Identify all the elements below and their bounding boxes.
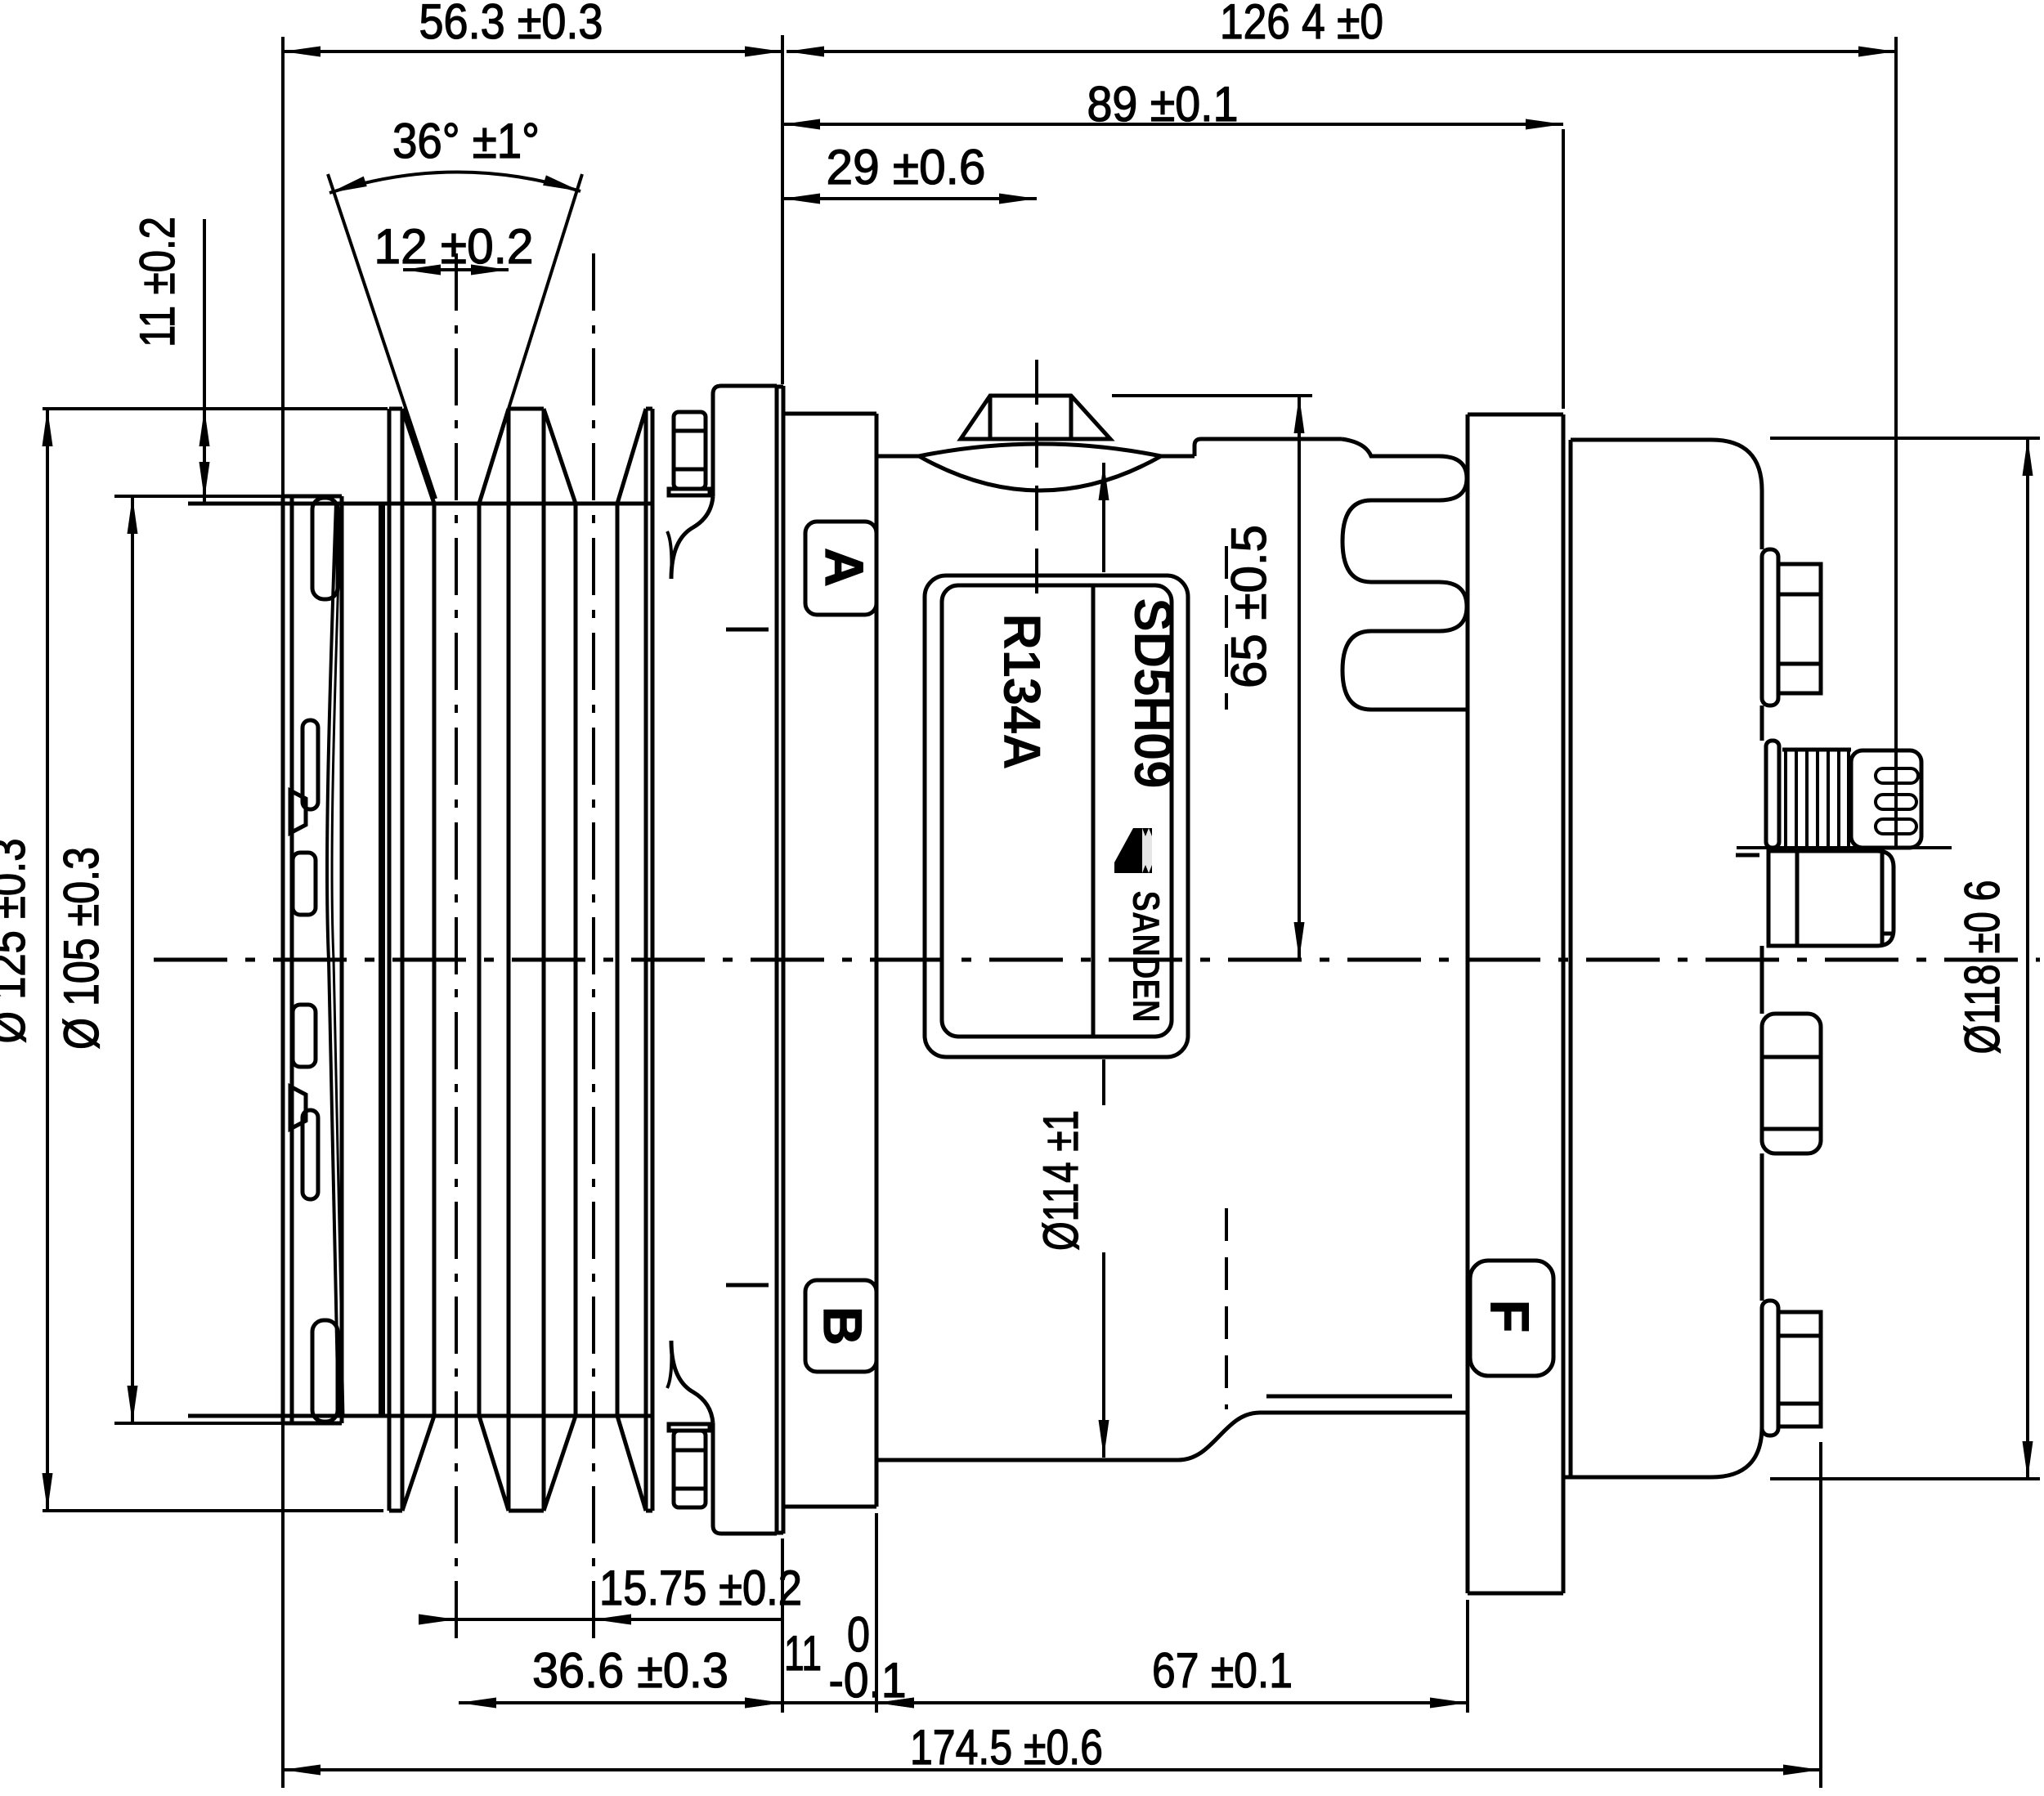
angle 36deg V-line left	[328, 174, 436, 499]
front head top edge	[783, 412, 876, 416]
groove2 bottom rear edge	[616, 504, 620, 1416]
dimension 15.75 +-0.2 line	[419, 1618, 783, 1621]
armature rivet upper	[290, 791, 306, 833]
rear plate left face	[1466, 414, 1470, 1593]
svg-text:67 ±0.1: 67 ±0.1	[1152, 1643, 1293, 1698]
svg-text:Ø118 ±0 6: Ø118 ±0 6	[1955, 880, 2010, 1055]
svg-text:Ø 125 ±0.3: Ø 125 ±0.3	[0, 839, 35, 1044]
label plate outer	[925, 576, 1188, 1057]
clutch front plate bottom edge	[282, 1422, 342, 1426]
clutch front plate rear face	[340, 496, 344, 1423]
hidden line suction bore x=1500	[1225, 546, 1228, 710]
pulley rim3 rear edge	[651, 409, 655, 1511]
dimension 36.6 +-0.3 line	[459, 1701, 782, 1704]
svg-text:11 ±0.2: 11 ±0.2	[130, 217, 185, 347]
clutch front plate top edge	[282, 495, 342, 499]
rear bolt bottom	[1762, 1301, 1778, 1435]
friction ring face (thick)	[379, 504, 385, 1416]
oil plug collar	[1766, 741, 1779, 848]
hidden edge near connector	[1736, 853, 1759, 858]
dimension 56.3 +-0.3 line	[283, 50, 782, 53]
extension line pulley OD top y=500	[43, 407, 388, 410]
rear plate right face	[1562, 414, 1566, 1593]
extension line body OD bottom right y=1809	[1770, 1477, 2040, 1480]
groove 1 centerline x=558	[455, 253, 458, 1639]
extension line rear plate left x=1795 bottom	[1466, 1600, 1469, 1713]
extension line pulley OD bottom y=1848	[43, 1509, 383, 1512]
svg-text:15.75 ±0.2: 15.75 ±0.2	[599, 1561, 802, 1615]
armature slot mid-upper	[293, 853, 316, 915]
sanden logo mark	[1114, 828, 1155, 873]
body top step up	[1195, 439, 1201, 456]
body bottom S-curve	[1178, 1413, 1260, 1460]
extension line rear bolts face x=2227	[1819, 1442, 1822, 1788]
coil housing tab bottom	[713, 1423, 777, 1534]
svg-text:36° ±1°: 36° ±1°	[392, 114, 540, 168]
svg-text:SD5H09: SD5H09	[1123, 598, 1182, 789]
discharge boss lens	[919, 444, 1161, 456]
extension line body front face x=957 bottom	[781, 1538, 784, 1713]
armature slot bottom	[312, 1320, 338, 1422]
groove1 bottom rear edge	[477, 504, 482, 1416]
dimension 89 +-0.1 line	[782, 123, 1563, 126]
dimension 126 4 +-0 line	[787, 50, 1896, 53]
body bottom sump line	[1260, 1411, 1468, 1415]
body bottom edge front	[878, 1458, 1178, 1462]
dimension dia105 +-0.3 line	[131, 496, 134, 1423]
pulley rim2 front edge	[507, 409, 511, 1511]
groove2 bottom front edge	[574, 504, 578, 1416]
oil plug threads	[1782, 748, 1851, 752]
rear bolt top hex	[1778, 564, 1821, 693]
extension line rear plate right x=1912 top	[1562, 129, 1565, 409]
rear plate foot bottom	[1468, 1592, 1563, 1596]
oil plug slot 2	[1876, 795, 1916, 809]
svg-text:A: A	[814, 548, 875, 587]
label divider	[1091, 585, 1096, 1037]
dimension 29 +-0.6 line	[782, 197, 1037, 200]
rear plate top edge	[1468, 413, 1563, 417]
svg-text:SANDEN: SANDEN	[1125, 891, 1168, 1023]
groove1 bottom front edge	[433, 504, 437, 1416]
pulley rim3 front edge	[644, 409, 648, 1511]
svg-text:11: 11	[784, 1626, 822, 1681]
leaf spring curve (front)	[327, 502, 338, 1418]
dimension 67 +-0.1 line	[876, 1701, 1468, 1704]
rear gasket line	[1569, 440, 1573, 1477]
extension line body front face x=957 top	[781, 35, 784, 384]
dimension 65 +-0.5 line	[1298, 396, 1301, 960]
svg-text:56.3 ±0.3: 56.3 ±0.3	[419, 0, 603, 49]
port label B box	[805, 1280, 876, 1372]
clutch hub bottom line y=1732	[188, 1414, 652, 1418]
reference line rear boss y=1037	[1737, 846, 1952, 849]
svg-text:89 ±0.1: 89 ±0.1	[1087, 77, 1239, 132]
rear cover top edge	[1571, 438, 1711, 442]
port label A box	[805, 522, 876, 615]
rear cover right edge segments	[1760, 490, 1764, 549]
body front plate	[775, 386, 779, 1534]
groove1 wall slants top	[402, 409, 434, 504]
armature rivet lower	[290, 1086, 306, 1129]
extension line rear fitting x=2319	[1894, 37, 1898, 848]
svg-text:F: F	[1480, 1300, 1540, 1332]
dimension 12 +-0.2 line	[403, 268, 509, 271]
extension line body OD top right y=536	[1770, 437, 2040, 440]
groove2 wall slants bottom	[544, 1416, 576, 1511]
rear head fins serpentine	[1342, 439, 1467, 710]
svg-text:-0.1: -0.1	[829, 1653, 907, 1708]
pulley rim1 front edge	[388, 409, 392, 1511]
dimension dia114 +-1 line lower	[1102, 1059, 1105, 1105]
dimension 11 +-0.2 line (vertical)	[203, 219, 206, 504]
body bottom inner line	[1266, 1395, 1452, 1399]
body top plateau	[1201, 437, 1342, 441]
rear bolt top flange	[1762, 549, 1778, 705]
dimension dia118 +-0 6 line	[2026, 438, 2029, 1479]
svg-text:Ø114 ±1: Ø114 ±1	[1033, 1110, 1088, 1251]
rear cover bottom edge	[1564, 1476, 1711, 1480]
angle 36deg +-1deg arc	[329, 172, 580, 193]
svg-text:126 4 ±0: 126 4 ±0	[1220, 0, 1383, 49]
extension line head rear face x=1072 bottom	[875, 1513, 878, 1713]
svg-text:174.5 ±0.6: 174.5 ±0.6	[910, 1720, 1103, 1775]
body top edge front	[876, 455, 919, 459]
clutch bolt top boss shoulder	[671, 496, 713, 579]
svg-text:65 ±0.5: 65 ±0.5	[1221, 525, 1276, 688]
extension line pulley front face x=346	[281, 37, 285, 1788]
armature slot top	[312, 498, 338, 599]
front head rear face	[875, 414, 879, 1507]
clutch bolt top hex head	[674, 412, 706, 489]
label plate inner	[942, 585, 1172, 1037]
dimension 11 0/-0.1 line	[782, 1701, 916, 1704]
oil plug body	[1851, 750, 1921, 848]
centerline (horizontal axis)	[154, 958, 2040, 962]
oil plug slot 1	[1876, 768, 1918, 783]
groove 2 centerline x=726	[592, 253, 595, 1639]
armature slot lower-mid	[303, 1110, 318, 1199]
clutch front plate face (double line)	[281, 496, 285, 1423]
clutch bolt bottom washer	[669, 1424, 710, 1431]
hidden edge between bolts top	[726, 628, 769, 632]
armature slot mid-lower	[293, 1005, 316, 1067]
dimension dia114 +-1 line upper	[1102, 463, 1105, 572]
pulley rim tops	[389, 407, 402, 411]
armature slot upper-mid	[303, 720, 318, 809]
clutch bolt bottom boss shoulder	[671, 1341, 713, 1423]
svg-text:29 ±0.6: 29 ±0.6	[827, 140, 986, 195]
pulley rim1 rear edge	[401, 409, 405, 1511]
svg-text:R134A: R134A	[993, 614, 1051, 770]
dimension dia125 +-0.3 line	[46, 409, 49, 1511]
oil plug slot 3	[1876, 819, 1916, 834]
svg-text:12 ±0.2: 12 ±0.2	[374, 219, 534, 274]
angle 36deg V-line right	[509, 174, 582, 409]
clutch bolt top washer	[669, 489, 710, 495]
front head bottom edge	[783, 1505, 876, 1509]
extension line pulley flange y=1741 bottom	[114, 1422, 283, 1425]
rear cover bottom-right corner	[1711, 1426, 1762, 1477]
rear connector inner lines	[1795, 851, 1800, 946]
pulley rim bottoms	[389, 1509, 402, 1513]
extension line port top y=484	[1112, 394, 1312, 397]
port centerline x=1268	[1035, 360, 1038, 597]
discharge port hex nut	[961, 396, 1110, 439]
hidden edge between bolts bottom	[726, 1283, 769, 1288]
clutch hub top line y=616	[188, 502, 652, 506]
clutch bolt bottom hex head	[674, 1431, 706, 1507]
port label F box	[1470, 1261, 1553, 1376]
coil housing tab top	[713, 386, 777, 496]
body top edge mid	[1161, 455, 1195, 459]
rear cover top-right corner	[1711, 440, 1762, 490]
groove2 wall slants top	[544, 409, 576, 504]
svg-text:B: B	[813, 1306, 873, 1346]
svg-text:Ø 105 ±0.3: Ø 105 ±0.3	[54, 847, 109, 1050]
svg-text:36.6 ±0.3: 36.6 ±0.3	[532, 1643, 728, 1698]
groove1 wall slants bottom	[402, 1416, 434, 1511]
dimension 174.5 +-0.6 line	[283, 1768, 1821, 1771]
pulley rim2 rear edge	[542, 409, 546, 1511]
extension line pulley flange y=607 top	[114, 495, 283, 498]
rear boss mid	[1762, 1014, 1821, 1153]
rear connector box	[1768, 851, 1894, 946]
